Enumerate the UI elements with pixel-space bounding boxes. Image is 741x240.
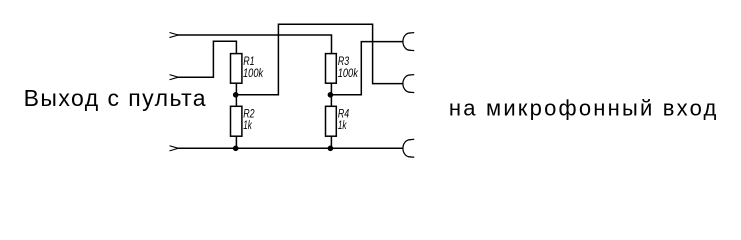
svg-text:100k: 100k bbox=[338, 66, 359, 80]
svg-text:100k: 100k bbox=[243, 66, 264, 80]
svg-text:Выход с пульта: Выход с пульта bbox=[24, 85, 206, 111]
svg-text:1k: 1k bbox=[243, 118, 252, 132]
svg-text:1k: 1k bbox=[338, 118, 347, 132]
svg-text:на микрофонный вход: на микрофонный вход bbox=[449, 96, 717, 121]
